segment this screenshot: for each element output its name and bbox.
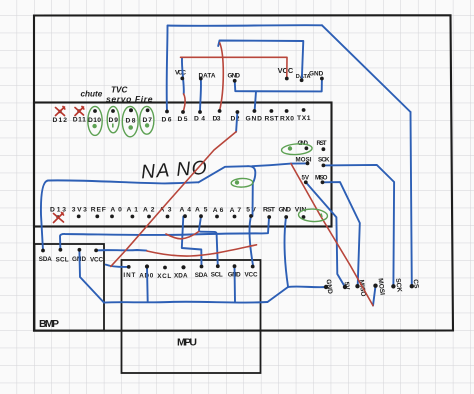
green circle mid [231,178,253,187]
wire BMP SCL run to RST [60,218,269,250]
pin dot D8 [129,108,133,112]
pin dot D7 [146,108,150,112]
pin dot A3 [166,215,170,219]
MPU dot INT [127,265,131,269]
pin dot 3V3 [77,215,81,219]
BMP dot VCC [94,249,98,253]
wire corner diagonal [322,25,411,112]
red X D13 [54,213,64,223]
svg-text:D7: D7 [143,117,153,124]
svg-text:RST: RST [265,116,280,123]
green tick D9 [112,124,114,128]
svg-text:SDA: SDA [195,272,208,279]
SPI dot MISO [355,284,359,288]
svg-text:GND: GND [246,116,263,123]
wire top run D6 to corner [168,24,323,27]
svg-text:RST: RST [263,207,276,214]
svg-text:D11: D11 [73,117,86,124]
svg-text:D3: D3 [213,116,221,123]
SPI dot CS [410,284,414,288]
BMP dot SCL [59,248,63,252]
svg-text:NA NO: NA NO [140,157,208,184]
wire DATA2 up-left run [218,41,303,81]
pin dot A4 [183,214,187,218]
svg-text:INT: INT [123,272,135,279]
pin dot D5 [181,110,185,114]
MPU dot GND [233,264,237,268]
pin dot A1 [131,215,135,219]
svg-text:D12: D12 [53,117,68,124]
pin dot A2 [147,215,151,219]
pin dot D9 [111,109,115,113]
wire red diagonal B [291,164,373,306]
pin dot 5V internal [304,180,308,184]
svg-text:3V3: 3V3 [72,207,87,214]
wire loop diagonal [199,166,249,182]
SPI dot GND [324,285,328,289]
pin dot 5V bottom [249,214,253,218]
MPU dot SCL [216,264,220,268]
svg-text:RX0: RX0 [280,116,294,123]
svg-text:VCC: VCC [175,70,186,77]
wire DATA1 drop to D4 [199,79,202,113]
wire 5V pin chain to header [306,182,345,287]
wire CS drop [411,112,412,286]
svg-text:GND: GND [309,71,324,78]
pin dot REF [95,215,99,219]
green circle GND internal [281,143,312,156]
BMP board box [35,244,105,331]
green tick VIN [321,214,322,218]
pin dot D11 [77,109,80,112]
pin dot RST bottom [267,215,271,219]
green dot GND internal [289,147,292,150]
MPU dot VCC [251,265,255,269]
wire red diagonal A [111,132,236,267]
wire A5 to MPU SCL [199,216,218,266]
wire GND header link [235,79,322,91]
U1 NANO board box [34,103,332,227]
wire MOSI header stub [373,286,376,306]
svg-text:MOSI: MOSI [296,157,312,164]
header1 dot DATA [199,77,203,81]
green circle D9 [107,106,119,132]
pin dot D4 [198,110,202,114]
green circle D7 [140,106,154,134]
wire red wavy lower [147,245,257,256]
pin dot D3 [218,109,222,113]
wire loop corner to 5V pin [248,166,255,216]
pin dot GND top [253,109,257,113]
svg-text:XCL: XCL [157,273,171,280]
pin dot A7 [233,215,237,219]
header2 dot GND [320,77,324,81]
wire BMP GND drop [79,250,104,303]
pin dot MISO internal [321,180,325,184]
pin dot A0 [110,215,114,219]
svg-text:SDA: SDA [39,256,52,263]
wire red VCC1 to D5 [183,94,185,112]
BMP dot SDA [41,249,45,253]
green circle D10 [88,106,102,135]
SPI dot SCK [391,284,395,288]
svg-text:D10: D10 [88,117,101,124]
svg-text:TX1: TX1 [297,115,311,122]
red X D11 [75,107,84,116]
wire 5V bottom to MPU VCC [249,216,253,266]
svg-text:D13: D13 [50,207,66,214]
svg-text:SCL: SCL [211,272,223,279]
wire SDA loop left [41,180,199,250]
svg-text:VCC: VCC [90,257,103,264]
MPU board box [122,260,261,373]
pin dot D13 [56,215,59,218]
pin dot TX1 [302,108,306,112]
header2 dot VCC [285,77,289,81]
pin dot RST internal [322,147,326,151]
wire A4 to MPU SDA [182,217,202,267]
pin dot D6 [165,110,169,114]
green circle VIN [298,208,328,222]
svg-text:SCK: SCK [318,157,330,164]
pin dot D10 [93,109,97,113]
wire loop to MOSI junction [252,164,291,167]
wire ground rail [104,301,268,304]
svg-text:MPU: MPU [177,337,197,349]
SPI dot 5V [343,285,347,289]
wire red to D3 [220,43,224,111]
MPU dot AD0 [145,264,149,268]
svg-text:RST: RST [317,140,327,147]
wire GND header tap to GND pin [255,91,256,111]
green dot D7 [146,124,149,127]
pin dot VIN [302,215,306,219]
pin dot GND bottom [284,215,288,219]
wire MPU AD0 drop [146,267,149,302]
svg-text:D2: D2 [231,116,240,123]
wire MISO chain [323,182,360,286]
svg-text:GND: GND [279,207,292,214]
svg-text:BMP: BMP [39,318,59,330]
MPU dot XCL [163,266,167,270]
pin dot GND internal [305,146,309,150]
green dot D10 [93,125,96,128]
wire MOSI stub [291,162,308,164]
wire INT stub [106,265,129,267]
wire red VCC rail [181,57,288,78]
wire BMP VCC run [96,249,146,252]
wire D6 riser [166,26,169,112]
pin dot MOSI internal [306,162,310,166]
svg-text:REF: REF [91,207,106,214]
wire MPU GND drop [234,266,237,302]
svg-text:SCL: SCL [56,257,69,264]
pin dot D2 [236,110,240,114]
pin dot A5 [199,214,203,218]
svg-text:VCC: VCC [245,272,258,279]
header1 dot VCC [180,77,184,81]
header2 dot DATA [300,78,304,82]
svg-text:VCC: VCC [278,66,294,75]
pin dot SCK internal [322,164,326,168]
MPU dot SDA [200,265,204,269]
outer border frame [34,15,453,330]
wire SCK chain [323,165,394,286]
svg-text:5V: 5V [246,207,256,214]
svg-text:MISO: MISO [315,175,328,182]
pin dot RX0 [285,109,289,113]
wire junction to ground rail [268,287,289,302]
green dot D8 [129,126,132,129]
red X D12 [56,107,65,116]
svg-text:GND: GND [228,73,241,80]
BMP dot GND [78,248,82,252]
svg-text:D9: D9 [109,117,119,124]
MPU dot XDA [181,265,185,269]
wire VCC1 drop [182,58,184,94]
pin dot D12 [58,110,61,113]
wire D2 stub [236,112,237,132]
wire NANO GND drop [285,217,288,287]
pin dot RST top [270,109,274,113]
green dot mid [236,181,239,184]
wire red wavy upper [166,232,199,239]
green circle D8 [122,106,138,136]
svg-text:chute: chute [81,90,103,99]
SPI dot MOSI [373,284,377,288]
pin dot A6 [215,215,219,219]
header1 dot GND [233,79,237,83]
svg-text:servo Fire: servo Fire [106,94,153,104]
svg-text:XDA: XDA [174,273,188,280]
wire junction to GND header dot [288,286,326,289]
